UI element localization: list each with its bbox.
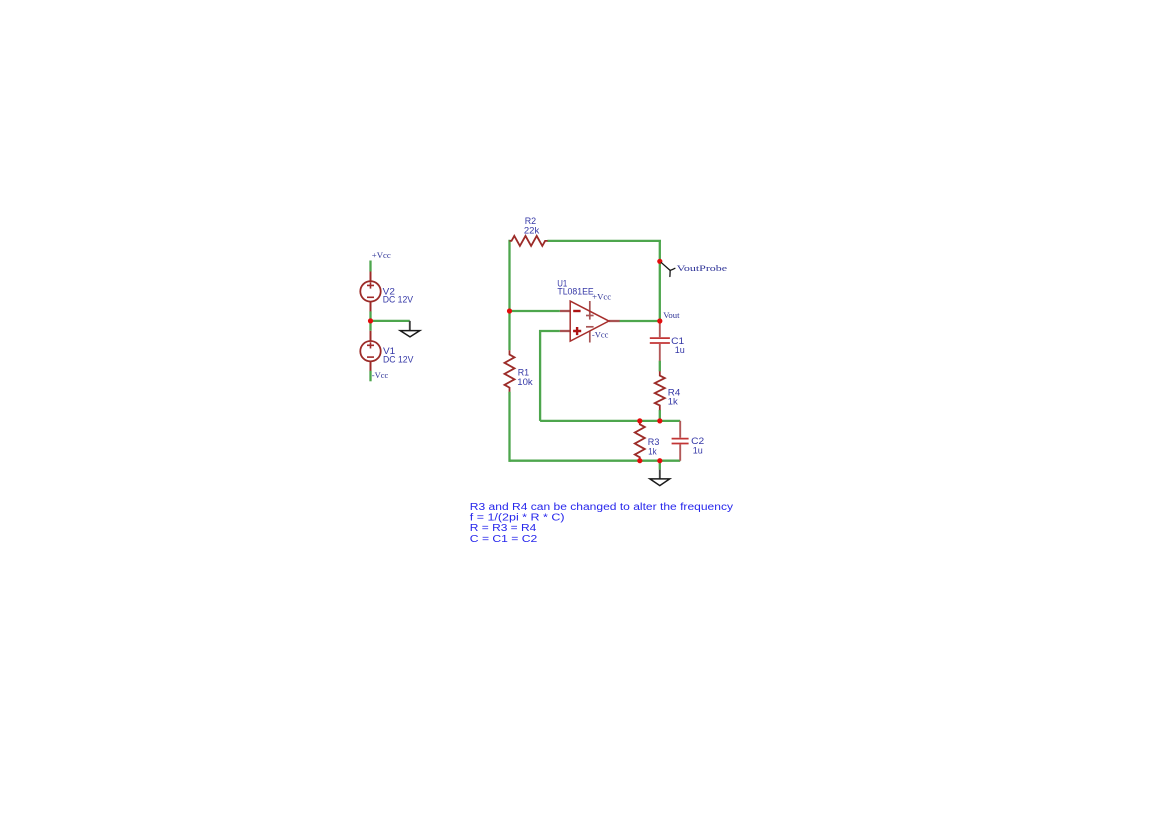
svg-text:10k: 10k [517, 377, 533, 388]
svg-text:C = C1 = C2: C = C1 = C2 [470, 534, 538, 545]
svg-text:Vout: Vout [663, 310, 680, 320]
svg-text:DC 12V: DC 12V [383, 354, 414, 365]
svg-text:TL081EE: TL081EE [557, 287, 593, 298]
svg-text:-Vcc: -Vcc [372, 370, 389, 380]
svg-text:-Vcc: -Vcc [592, 329, 609, 339]
svg-text:1u: 1u [675, 345, 685, 356]
svg-text:1k: 1k [668, 397, 678, 408]
svg-text:R3 and R4 can be changed to al: R3 and R4 can be changed to alter the fr… [470, 502, 733, 513]
svg-text:R = R3 = R4: R = R3 = R4 [470, 523, 537, 534]
svg-text:+Vcc: +Vcc [372, 250, 391, 260]
svg-text:DC 12V: DC 12V [383, 295, 414, 306]
svg-text:f = 1/(2pi * R * C): f = 1/(2pi * R * C) [470, 513, 565, 524]
svg-text:1k: 1k [648, 446, 657, 457]
svg-text:+Vcc: +Vcc [592, 291, 611, 301]
svg-text:1u: 1u [693, 446, 703, 457]
svg-text:VoutProbe: VoutProbe [677, 263, 728, 273]
svg-text:22k: 22k [524, 225, 540, 236]
